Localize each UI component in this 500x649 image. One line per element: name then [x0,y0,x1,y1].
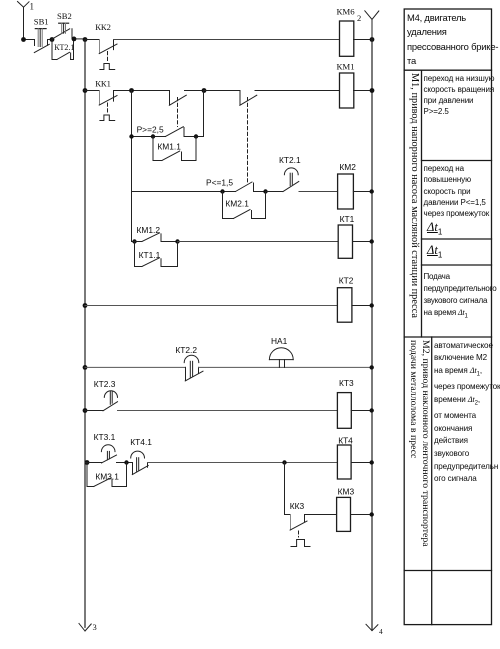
wire: feeder riser [131,91,133,242]
wire KT2.2 to HA1 and right bus [199,366,373,368]
junction dot rail2/feeder [129,88,134,93]
table outer border [404,9,491,625]
time contact KT4.1 (delayed) [131,451,149,475]
time contact KT2.3 (delayed) [85,391,118,411]
wire: left bus [84,40,86,628]
coil KM2 [338,174,354,209]
table cell divider (delta-t cell mid) [422,238,492,240]
junction dot SB1/SB2 [50,37,55,42]
junction dot KT2.3 row left [83,408,88,413]
wire coil KM6 to right bus [354,39,373,41]
table cell M2 rotated text line2 [408,340,419,458]
wire SB2 to bus [72,38,85,40]
wire riser to rail2 [203,91,205,137]
junction dot [370,460,374,464]
junction dot KM1.1 branch left [151,134,155,138]
svg-text:КТ2.3: КТ2.3 [94,379,116,389]
table cell M1 rotated text [409,73,420,318]
wire rail2 segment [114,90,170,92]
contact KM2.1 (parallel branch) [223,192,266,219]
wire: drop to KK3 [284,463,286,515]
junction dot rail2 riser [202,88,207,93]
table cell divider (delta-t cell bottom) [422,264,492,266]
table cell: avtomaticheskoe vklyuchenie [434,340,500,486]
contact KM1.1 (parallel branch) [153,137,196,161]
table cell M2 rotated text line1 [420,340,431,547]
coil KT1 [338,225,352,258]
junction dot [370,189,374,193]
svg-text:4: 4 [379,627,383,636]
svg-text:КМ2: КМ2 [339,162,356,172]
svg-text:КМ3.1: КМ3.1 [95,472,119,482]
wire KK3 to coil KM3 [305,514,337,516]
svg-text:КТ2.2: КТ2.2 [175,345,197,355]
contact KM1.2 [132,233,178,242]
svg-text:КТ2: КТ2 [339,276,354,286]
svg-text:КТ2.1: КТ2.1 [279,155,301,165]
table cell: podacha signala [424,271,497,323]
wire coil KM2 to right bus [353,191,372,193]
table delta-t symbol 2 [427,243,442,260]
node 2 arrow [365,11,379,40]
contact KT1.1 (parallel branch) [135,242,178,267]
wire coil KT4 to right bus [351,462,372,464]
wire: P line [132,136,166,138]
svg-text:1: 1 [30,2,35,12]
wire: right bus [371,40,373,631]
junction dot [370,88,375,93]
svg-text:Р>=2,5: Р>=2,5 [137,125,164,135]
table cell: perehod na nizshuyu [424,73,495,118]
junction dot KM1.2 row right [175,239,179,243]
junction dot [370,37,375,42]
pushbutton SB1 (NC, mushroom head) [34,29,49,53]
mechanical link dash to P>=2,5 [177,98,179,127]
wire KT2.1 to coil KM2 [299,191,338,193]
wire: KT2 row [85,305,337,307]
svg-text:КК1: КК1 [95,78,111,88]
wire SB1 to SB2 junction [48,39,53,41]
wire KT2.3 to coil KT3 [118,410,338,412]
junction dot KT2 row left [83,303,88,308]
table delta-t symbol 1 [427,220,442,237]
svg-text:3: 3 [93,622,97,632]
thermal contact KK2 [85,40,117,70]
coil KM6 [340,21,354,56]
svg-text:КТ3.1: КТ3.1 [94,432,116,442]
wire coil KT3 to right bus [351,410,372,412]
junction dot KM2.1 branch right [263,189,267,193]
junction dot [370,303,374,307]
table column divider M2 group and bottom row [431,337,433,625]
contact (pressure-linked) on rail2 no.1 [169,91,204,106]
junction dot KT3.1 row left [85,460,90,465]
wire to KT2.1 contact [266,191,284,193]
svg-text:2: 2 [357,13,361,23]
contact KM3.1 (parallel branch) [87,463,127,487]
table cell: perehod na povyshennuyu [424,163,490,219]
svg-text:КМ2.1: КМ2.1 [225,199,249,209]
svg-text:КМ1: КМ1 [337,62,355,72]
table column divider M1 group [421,70,423,337]
junction dot KM2.1 branch left [220,189,224,193]
coil KT4 [337,445,351,479]
svg-text:КТ1.1: КТ1.1 [139,250,161,260]
junction dot rail2 left [83,88,88,93]
svg-text:КТ1: КТ1 [340,214,355,224]
pressure contact P<=1,5 [236,182,266,192]
svg-text:SB2: SB2 [57,11,72,21]
time contact KT2.2 (delayed) [184,355,203,381]
coil KM3 [337,497,351,531]
svg-text:КТ4: КТ4 [338,435,353,445]
wire: top rail to coil KM6 [114,39,340,41]
svg-text:SB1: SB1 [34,17,49,27]
table border above bottom empty row [404,570,491,572]
svg-text:НА1: НА1 [271,336,288,346]
svg-text:КТ3: КТ3 [339,378,354,388]
table border M1/M2 row divider [404,336,491,338]
svg-text:КК2: КК2 [95,22,111,32]
junction dot left bus top [83,37,88,42]
svg-text:КК3: КК3 [290,501,305,511]
junction dot P line right [194,134,198,138]
junction dot [72,37,77,42]
junction dot [370,512,374,516]
contact (pressure-linked) on rail2 no.2 [204,91,339,106]
time contact KT3.1 (delayed) [85,445,117,463]
wire coil KM1 to right bus [354,90,373,92]
svg-text:КМ1.2: КМ1.2 [137,225,161,235]
wire KT2.2 row left segment [85,366,186,368]
coil KT2 [337,288,352,323]
thermal contact KK3 [285,515,311,547]
pushbutton SB2 (NO, mushroom head) [52,23,72,39]
coil KT3 [337,393,351,429]
wire KT3.1 to KT4.1 [117,462,133,464]
pressure contact P>=2,5 [166,127,204,137]
wire coil KM3 to right bus [351,514,373,516]
wire to coil KT1 [178,241,339,243]
junction dot at SB1 left [21,37,26,42]
wire: P<=1,5 line [132,191,236,193]
node 4 arrow [366,624,378,630]
svg-text:КМ3: КМ3 [338,486,355,496]
mechanical link dash to P<=1,5 [247,98,249,184]
node 1 arrow [18,2,30,40]
wire KT4.1 to coil KT4 [148,462,338,464]
svg-text:КМ1.1: КМ1.1 [157,141,181,151]
node 3 arrow [79,624,91,632]
junction dot KT2.2 row left [83,365,88,370]
junction dot P line left [129,134,133,138]
coil KM1 [340,73,354,108]
junction dot [370,408,374,412]
junction dot KM1.2 row left [132,239,136,243]
junction dot [370,239,374,243]
junction dot KM3.1 branch right [124,460,128,464]
junction dot KT2.2 row right [370,365,374,369]
table cell M4 text [407,11,498,69]
time contact KT2.1 (delayed) [283,168,299,192]
table cell divider (delta-t cell top) [422,160,492,162]
wire coil KT1 to right bus [353,241,373,243]
svg-text:Р<=1,5: Р<=1,5 [206,178,233,188]
svg-text:КТ4.1: КТ4.1 [130,437,152,447]
table border below M4 cell [404,69,491,71]
svg-text:КТ2.1: КТ2.1 [54,43,74,52]
wire: top rail left [24,39,35,41]
wire coil KT2 to right bus [352,305,372,307]
thermal contact KK1 [85,91,117,121]
sounder HA1 [269,348,293,368]
svg-text:КМ6: КМ6 [337,6,356,16]
junction dot KK3 branch [282,460,286,464]
contact KT2.1 (parallel to SB2) [52,39,74,60]
